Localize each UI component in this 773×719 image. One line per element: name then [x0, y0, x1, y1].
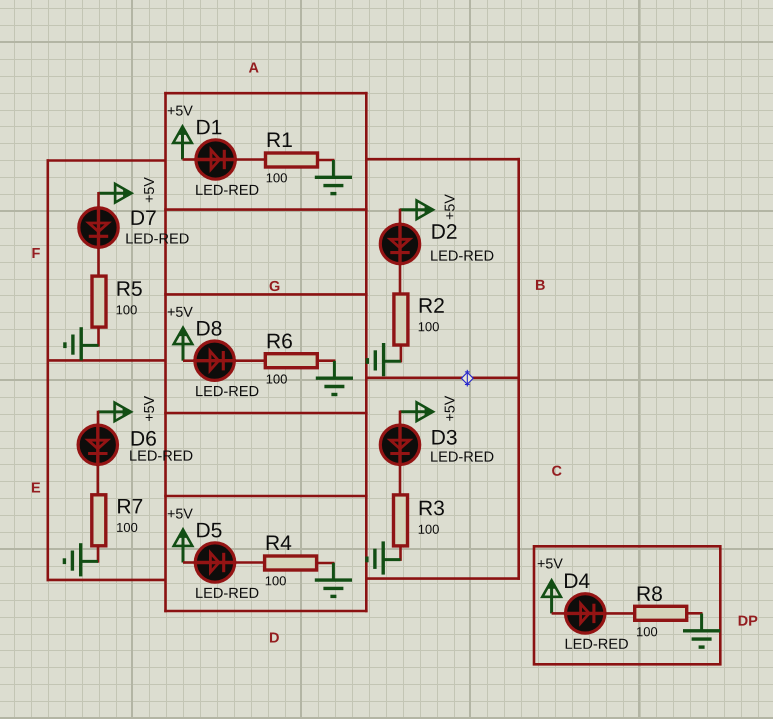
ground B (left): [367, 343, 401, 376]
label D6: [132, 431, 156, 446]
label +5V G: [168, 307, 193, 317]
label D4: [565, 574, 590, 588]
wire center-left vertical bus: [164, 92, 167, 612]
power +5V arrow DP: [542, 580, 561, 614]
label D1: [197, 120, 221, 134]
power +5V arrow B (right): [400, 201, 434, 220]
wire F: LED to R5: [97, 248, 100, 277]
label R7 value 100: [117, 523, 137, 532]
label R3 value 100: [419, 525, 439, 534]
label D3 value LED-RED: [431, 452, 493, 462]
power +5V arrow G: [174, 327, 193, 361]
wire F: R5 to ground: [97, 327, 100, 347]
label +5V B (rotated): [445, 194, 455, 219]
wire E: R7 to ground: [97, 546, 100, 563]
label R5 value 100: [117, 305, 137, 314]
label R1 value 100: [267, 173, 287, 182]
net label A: [249, 63, 259, 73]
label D7: [132, 210, 156, 224]
wire segment C bottom: [366, 577, 520, 580]
net label F: [32, 248, 39, 258]
wire segment D bottom: [164, 610, 367, 613]
ground A: [315, 160, 352, 194]
wire G: arrow to LED: [183, 359, 195, 362]
power +5V arrow A: [173, 126, 192, 160]
label D2 value LED-RED: [431, 251, 493, 261]
wire D: R4 to ground: [316, 562, 335, 565]
diode D1: [194, 140, 237, 179]
wire DP: arrow to LED: [552, 612, 565, 615]
wire segment B bottom: [366, 376, 520, 379]
label D2: [432, 224, 456, 239]
net label E: [32, 483, 40, 493]
resistor R5: [92, 276, 106, 327]
resistor R2: [394, 294, 408, 345]
wire left outer vertical bus: [46, 159, 49, 581]
label R2 value 100: [419, 322, 439, 331]
resistor R3: [394, 495, 408, 546]
power +5V arrow C (right): [400, 402, 434, 421]
label +5V DP: [538, 559, 563, 569]
wire C: R3 to ground: [399, 546, 402, 561]
diode D4: [564, 594, 607, 633]
label +5V A: [168, 106, 193, 116]
label R7: [118, 499, 142, 513]
wire segment A bottom: [164, 208, 367, 211]
wire E: LED to R7: [97, 465, 100, 496]
wire F: arrow stub to LED: [97, 192, 100, 208]
wire E: arrow stub to LED: [97, 411, 100, 425]
diode D7: [79, 206, 118, 249]
label R1: [268, 133, 292, 147]
label D8: [197, 321, 221, 336]
wire A: LED to R1: [236, 158, 266, 161]
net label DP: [739, 616, 758, 626]
wire segment F bottom: [47, 359, 166, 362]
label D7 value LED-RED: [126, 233, 188, 243]
diode D8: [193, 341, 236, 380]
label D6 value LED-RED: [130, 451, 192, 461]
label D1 value LED-RED: [196, 185, 258, 195]
label R4 value 100: [266, 576, 286, 585]
label R3: [420, 501, 444, 516]
ground D: [315, 563, 352, 597]
power +5V arrow F (right): [99, 184, 133, 203]
wire D: LED to R4: [236, 561, 266, 564]
label +5V D: [168, 509, 193, 519]
label +5V E (rotated): [144, 396, 154, 421]
label D5 value LED-RED: [196, 588, 258, 598]
wire A: arrow to LED: [183, 158, 196, 161]
net label C: [552, 466, 561, 476]
node marker junction (blue): [461, 370, 473, 387]
label D4 value LED-RED: [566, 639, 628, 649]
wire G: LED to R6: [235, 359, 266, 362]
resistor R4: [265, 556, 317, 570]
power +5V arrow E (right): [98, 403, 132, 422]
main bus wires: [47, 92, 721, 664]
net label D: [270, 633, 279, 643]
wire segment A top: [164, 92, 367, 95]
wire DP: R8 to ground: [686, 612, 703, 615]
diode D6: [78, 424, 117, 467]
label R2: [420, 298, 444, 313]
label +5V C (rotated): [445, 396, 455, 421]
label D3: [432, 430, 456, 445]
wire right outer vertical bus: [517, 158, 520, 580]
wire C: arrow stub to LED: [399, 411, 402, 426]
wire B: R2 to ground: [400, 345, 403, 363]
wire segment B top: [366, 158, 520, 161]
wire A: R1 to ground: [317, 159, 335, 162]
wire segment G top: [164, 293, 367, 296]
label R8 value 100: [637, 627, 657, 636]
ground DP: [683, 614, 720, 648]
wire DP box: [534, 546, 720, 664]
resistor R8: [635, 606, 687, 620]
wire segment E bottom: [47, 579, 166, 582]
resistor R1: [266, 153, 318, 167]
label R5: [118, 281, 142, 296]
resistor R7: [92, 495, 106, 546]
wire segment G bottom: [164, 412, 367, 415]
ground F (left): [65, 327, 99, 360]
wire B: LED to R2: [399, 264, 402, 295]
resistor R6: [265, 354, 317, 368]
label D5: [197, 523, 221, 538]
label R4: [267, 536, 292, 550]
wire segment D top: [164, 495, 367, 498]
wire C: LED to R3: [399, 465, 402, 496]
label D8 value LED-RED: [196, 386, 258, 396]
label +5V F (rotated): [144, 177, 154, 202]
wire B: arrow stub to LED: [399, 209, 402, 224]
wire G: R6 to ground: [317, 359, 336, 362]
wire DP: LED to R8: [606, 612, 636, 615]
ground E (left): [64, 543, 98, 576]
wire D: arrow to LED: [183, 561, 195, 564]
power +5V arrow D: [174, 529, 193, 563]
diode D3: [380, 424, 419, 467]
wire center-right vertical bus: [365, 92, 368, 612]
net label G: [270, 281, 280, 291]
label R6 value 100: [267, 374, 287, 383]
diode D5: [194, 543, 237, 582]
wire segment F top: [47, 159, 166, 162]
ground C (left): [367, 541, 401, 574]
diode D2: [380, 223, 419, 266]
net label B: [536, 280, 545, 290]
label R6: [268, 334, 292, 349]
ground G: [316, 361, 353, 395]
label R8: [638, 586, 662, 601]
